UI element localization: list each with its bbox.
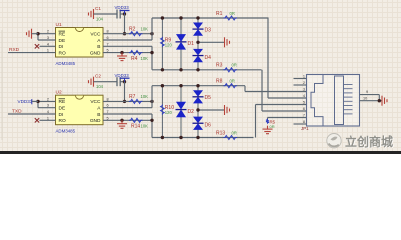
power port VDD33 [120,78,130,82]
wire A pin to bus vertical [103,39,152,41]
op-amp style IC U1 (ADM3485 RS-485 transceiver) [56,28,104,58]
wire GND pin stub [103,119,152,121]
node TVS centre tap [196,108,199,111]
node D3 top [196,16,199,19]
ground (rotated) for C2 [89,77,94,87]
ground below R5 [263,126,273,134]
diode D2 TVS across A-B [180,86,182,138]
node VCC junction [123,100,126,103]
node D1 bottom [179,68,182,71]
diode D3 TVS A to ground [197,18,199,42]
node VDD33 junction [123,12,126,15]
wire C2 to VDD33 node [120,81,124,83]
node RE/DE junction [36,100,39,103]
wire TVS centre tap [198,109,224,111]
diode D6 TVS B to ground [197,110,199,138]
wire connector pin 7 to shield resistor [268,118,307,120]
wire connector pin 10 [360,100,382,102]
pin names of U2 [59,99,102,124]
node D1 top [179,16,182,19]
resistor R9 termination [161,18,163,70]
diode D5 TVS A to ground [197,86,199,110]
wire GND pin stub [103,52,152,54]
node RE/DE junction [36,32,39,35]
wire connector pin 9 [360,95,380,101]
op-amp style IC U2 (ADM3485 RS-485 transceiver) [56,95,104,125]
wire VCC pin stub [103,100,125,102]
pin numbers left of U1 [47,30,49,53]
pin numbers of JP1 left side [303,75,305,125]
wire stub connector pin 8 [294,123,307,125]
wire bus rail A (top) [152,85,245,87]
pin names of U1 [59,31,102,56]
wire RE/DE tie [38,33,56,35]
resistor R2 pull-up VCC to A [125,33,153,35]
node R10 top [161,84,164,87]
wire bus rail A (top) [152,17,269,19]
resistor R7 pull-up VCC to A [125,100,153,102]
node B pull-down junction [150,119,153,122]
wire bus A vertical [151,86,153,108]
wire RE/DE tie [38,100,56,102]
resistor R8 series on A rail [223,84,236,88]
no-connect X on RO pin [35,118,39,122]
node TVS centre tap [196,41,199,44]
wire bus B2 to connector pin 5 [256,105,307,138]
wire VCC pin stub [103,33,125,35]
node D6 bottom [196,136,199,139]
wire bus B vertical [151,46,153,70]
node GND junction [120,119,123,122]
wire TXD to DI pin [8,113,56,115]
ground (rotated) at RE/DE [27,29,32,39]
resistor R4 pull-down GND to B [129,51,142,55]
pin numbers right of U2 [107,97,109,120]
wire C2 to ground [94,81,118,83]
wire bus A vertical [151,18,153,40]
wire stub connector pin 1 [294,78,307,80]
power net VDD33 at RE/DE [31,99,33,104]
wire C1 to VDD33 node [120,13,124,15]
node D2 top [179,84,182,87]
capacitor C1 [117,10,120,19]
node A pull-up junction [150,100,153,103]
resistor R3 series on B rail [223,68,236,72]
connector JP1 plug profile [311,75,323,126]
wire B pin to bus vertical [103,45,152,47]
wire A pin to bus vertical [103,107,152,109]
node pin 9/10 junction [378,99,381,102]
wire bus A2 to connector pin 3 [245,86,307,92]
node B pull-down junction [150,51,153,54]
wire bus rail B (bottom) [152,69,262,71]
wire bus B1 to connector pin 6 [262,70,307,111]
power port VDD33 [120,11,130,15]
connector JP1 contact hatch [344,85,353,114]
ground at GND pin [117,53,127,61]
node VCC junction [123,32,126,35]
resistor R13 series on B rail [223,136,236,140]
resistor R10 termination [161,86,163,138]
resistor R5 shield to ground [266,119,269,124]
svg-text:立创商城: 立创商城 [345,134,393,149]
connector JP1 contact block [335,76,344,125]
node R9 top [161,16,164,19]
ground (rotated) at TVS centre tap [225,105,230,115]
resistor R1 series on A rail [223,16,236,20]
wire C1 to ground [94,13,118,15]
diode D1 TVS across A-B [180,18,182,70]
wire RXD to RO pin [8,52,56,54]
node D2 bottom [179,136,182,139]
pin numbers right of U1 [107,30,109,53]
node R9 bottom [161,68,164,71]
ground (rotated) at connector shield [382,96,387,106]
wire VDD33 to VCC pin [124,14,126,34]
ground (rotated) at TVS centre tap [225,37,230,47]
ground at GND pin [117,120,127,128]
node D5 top [196,84,199,87]
node VDD33 junction [123,80,126,83]
capacitor C2 [117,77,120,86]
pin numbers left of U2 [47,97,49,120]
wire bus rail B (bottom) [152,137,254,139]
wire bus A1 to connector pin 4 [268,18,307,98]
resistor R14 pull-down GND to B [129,118,142,122]
wire stub connector pin 2 [294,84,307,86]
no-connect X on DI pin [35,44,39,48]
node R10 bottom [161,136,164,139]
node A pull-up junction [150,32,153,35]
wire VDD33 to VCC pin [124,82,126,102]
wire bus B vertical [151,114,153,138]
ground (rotated) for C1 [89,9,94,19]
wire B pin to bus vertical [103,113,152,115]
node GND junction [120,51,123,54]
wire TVS centre tap [198,41,224,43]
node D4 bottom [196,68,199,71]
connector JP1 RJ45 body [307,75,360,127]
sheet border [1,30,3,140]
diode D4 TVS B to ground [197,42,199,70]
